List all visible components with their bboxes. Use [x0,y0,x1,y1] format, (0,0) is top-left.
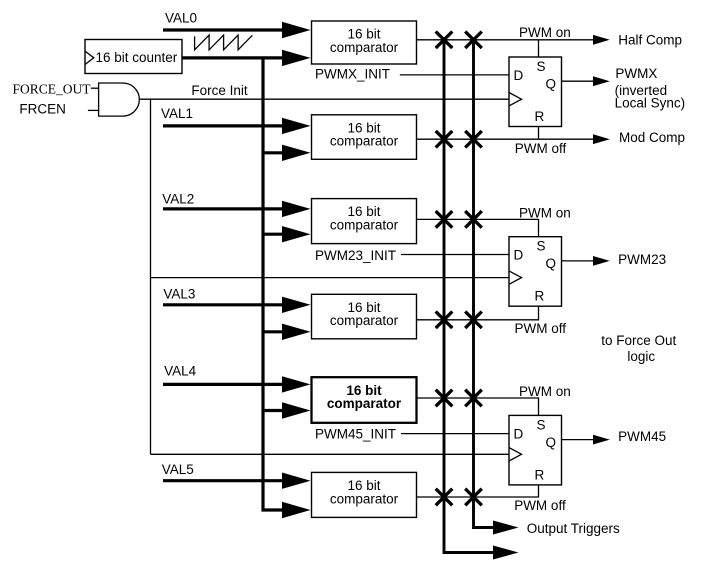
wire: FF1 Q output to PWMX [562,80,594,82]
wire: FF3 Q output to PWM45 [562,439,594,441]
svg-text:PWM45: PWM45 [618,429,666,444]
comparator U1: 16 bit comparator [312,21,417,64]
svg-text:PWM on: PWM on [519,384,571,399]
FF2 clock pin [509,271,522,284]
svg-text:Mod Comp: Mod Comp [619,130,685,145]
svg-text:PWM on: PWM on [519,206,571,221]
wire: comparator 3 output PWM on elbow to FF2 S [417,219,539,236]
svg-text:FRCEN: FRCEN [19,101,66,116]
wire: VAL2 arrow into comparator 3 [163,207,284,210]
flip-flop FF3 [509,415,562,485]
wire: bus branch to comparator 5 lower input [263,409,284,412]
wire: trigger bus B (right vertical) to Output Triggers arrow [474,40,495,528]
sawtooth waveform symbol [195,35,253,50]
svg-text:VAL1: VAL1 [161,106,193,121]
junction X marks group 3 PWM off [436,489,482,506]
wire: VAL3 arrow into comparator 4 [163,303,284,306]
wire: comparator 6 output PWM off elbow to FF3 R [417,485,539,497]
svg-text:comparator: comparator [330,313,399,328]
FF1 clock pin [509,93,522,106]
svg-text:Q: Q [546,77,557,92]
wire: FORCE_OUT stub to AND input [91,87,99,89]
wire: Force Init branch to FF2 clock [151,277,509,279]
wire: FF1 R connector [538,127,540,140]
svg-text:Local Sync): Local Sync) [615,96,686,111]
flip-flop FF1 [509,57,562,127]
wire: FF2 Q output to PWM23 [562,260,594,262]
wire: VAL0 arrow into comparator 1 [163,28,284,31]
svg-text:PWM23: PWM23 [618,252,666,267]
counter U0: 16 bit counter box [85,40,182,74]
wire: PWM45_INIT to FF3 D input [401,433,509,435]
svg-text:R: R [535,289,545,304]
svg-text:VAL3: VAL3 [163,287,195,302]
wire: bus branch to comparator 2 lower input [263,151,284,154]
svg-text:Q: Q [546,256,557,271]
wire: comparator 5 output PWM on elbow to FF3 S [417,398,539,415]
wire: VAL4 arrow into comparator 5 [163,383,284,386]
wire: bus branch to comparator 3 lower input [263,233,284,236]
svg-text:S: S [537,417,546,432]
wire: PWM23_INIT to FF2 D input [401,254,509,256]
wire: bus branch to comparator 4 lower input [263,330,284,333]
wire: counter value bus vertical [263,58,285,510]
wire: comparator 4 output PWM off elbow to FF2 R [417,306,539,320]
junction X marks group 2 PWM off [436,312,482,329]
wire: PWMX_INIT to FF1 D input [400,74,509,76]
svg-text:D: D [514,426,524,441]
svg-text:PWM on: PWM on [519,25,571,40]
svg-text:FORCE_OUT: FORCE_OUT [13,82,92,97]
svg-text:comparator: comparator [330,134,399,149]
wire: VAL1 arrow into comparator 2 [163,124,284,127]
svg-text:Half Comp: Half Comp [618,32,682,47]
counter clock pin [85,51,94,64]
svg-text:PWM off: PWM off [515,321,567,336]
FF3 clock pin [509,448,522,461]
flip-flop FF2 [509,237,562,307]
svg-text:S: S [537,59,546,74]
svg-text:PWMX: PWMX [615,66,657,81]
wire: Force Init to FF1 clock [139,98,509,100]
svg-text:PWMX_INIT: PWMX_INIT [315,67,390,82]
comparator U3: 16 bit comparator [312,199,417,244]
svg-text:PWM23_INIT: PWM23_INIT [315,248,396,263]
svg-text:PWM off: PWM off [514,498,566,513]
label to Force Out logic [601,333,676,364]
svg-text:VAL4: VAL4 [164,363,197,378]
svg-text:logic: logic [627,349,655,364]
comparator U2: 16 bit comparator [312,115,417,160]
svg-text:Output Triggers: Output Triggers [527,521,620,536]
comparator U4: 16 bit comparator [312,294,417,339]
wire: VAL5 arrow into comparator 6 [163,479,284,482]
svg-text:D: D [514,68,524,83]
wire: Force Init branch to FF3 clock [151,453,510,455]
comparator U5: 16 bit comparator (bold) [312,377,417,423]
junction X marks group 3 PWM on [436,390,482,407]
wire: comparator 1 output PWM on line to Half Comp [417,39,594,41]
svg-text:VAL0: VAL0 [165,10,197,25]
wire: FF1 S connector [538,40,540,57]
svg-text:S: S [537,239,546,254]
svg-text:16 bit counter: 16 bit counter [96,50,178,65]
wire: counter output to comparator 1 lower input [182,56,284,59]
AND gate U7 [99,83,140,116]
svg-text:comparator: comparator [330,218,399,233]
wire: comparator 2 output PWM off line to Mod Comp [417,138,594,140]
svg-text:Q: Q [546,435,557,450]
label PWMX (inverted Local Sync) [615,66,686,111]
svg-text:PWM45_INIT: PWM45_INIT [315,427,396,442]
svg-text:comparator: comparator [330,40,399,55]
comparator U6: 16 bit comparator [312,472,417,517]
svg-text:R: R [535,467,545,482]
svg-text:PWM off: PWM off [515,141,567,156]
svg-text:Force Init: Force Init [191,83,248,98]
svg-text:VAL5: VAL5 [162,462,194,477]
junction X marks group 2 PWM on [436,211,482,228]
svg-text:R: R [535,109,545,124]
junction X marks group 1 PWM on [436,32,482,49]
wire: Force Init vertical drop [150,99,152,454]
wire: trigger bus A (left vertical) with bottom arrow [444,40,494,553]
junction X marks group 1 PWM off [436,131,482,148]
svg-text:comparator: comparator [330,491,399,506]
svg-text:VAL2: VAL2 [162,192,194,207]
wire: FRCEN stub to AND input [88,109,99,111]
svg-text:comparator: comparator [327,396,402,411]
svg-text:to Force Out: to Force Out [601,333,676,348]
svg-text:D: D [514,248,524,263]
